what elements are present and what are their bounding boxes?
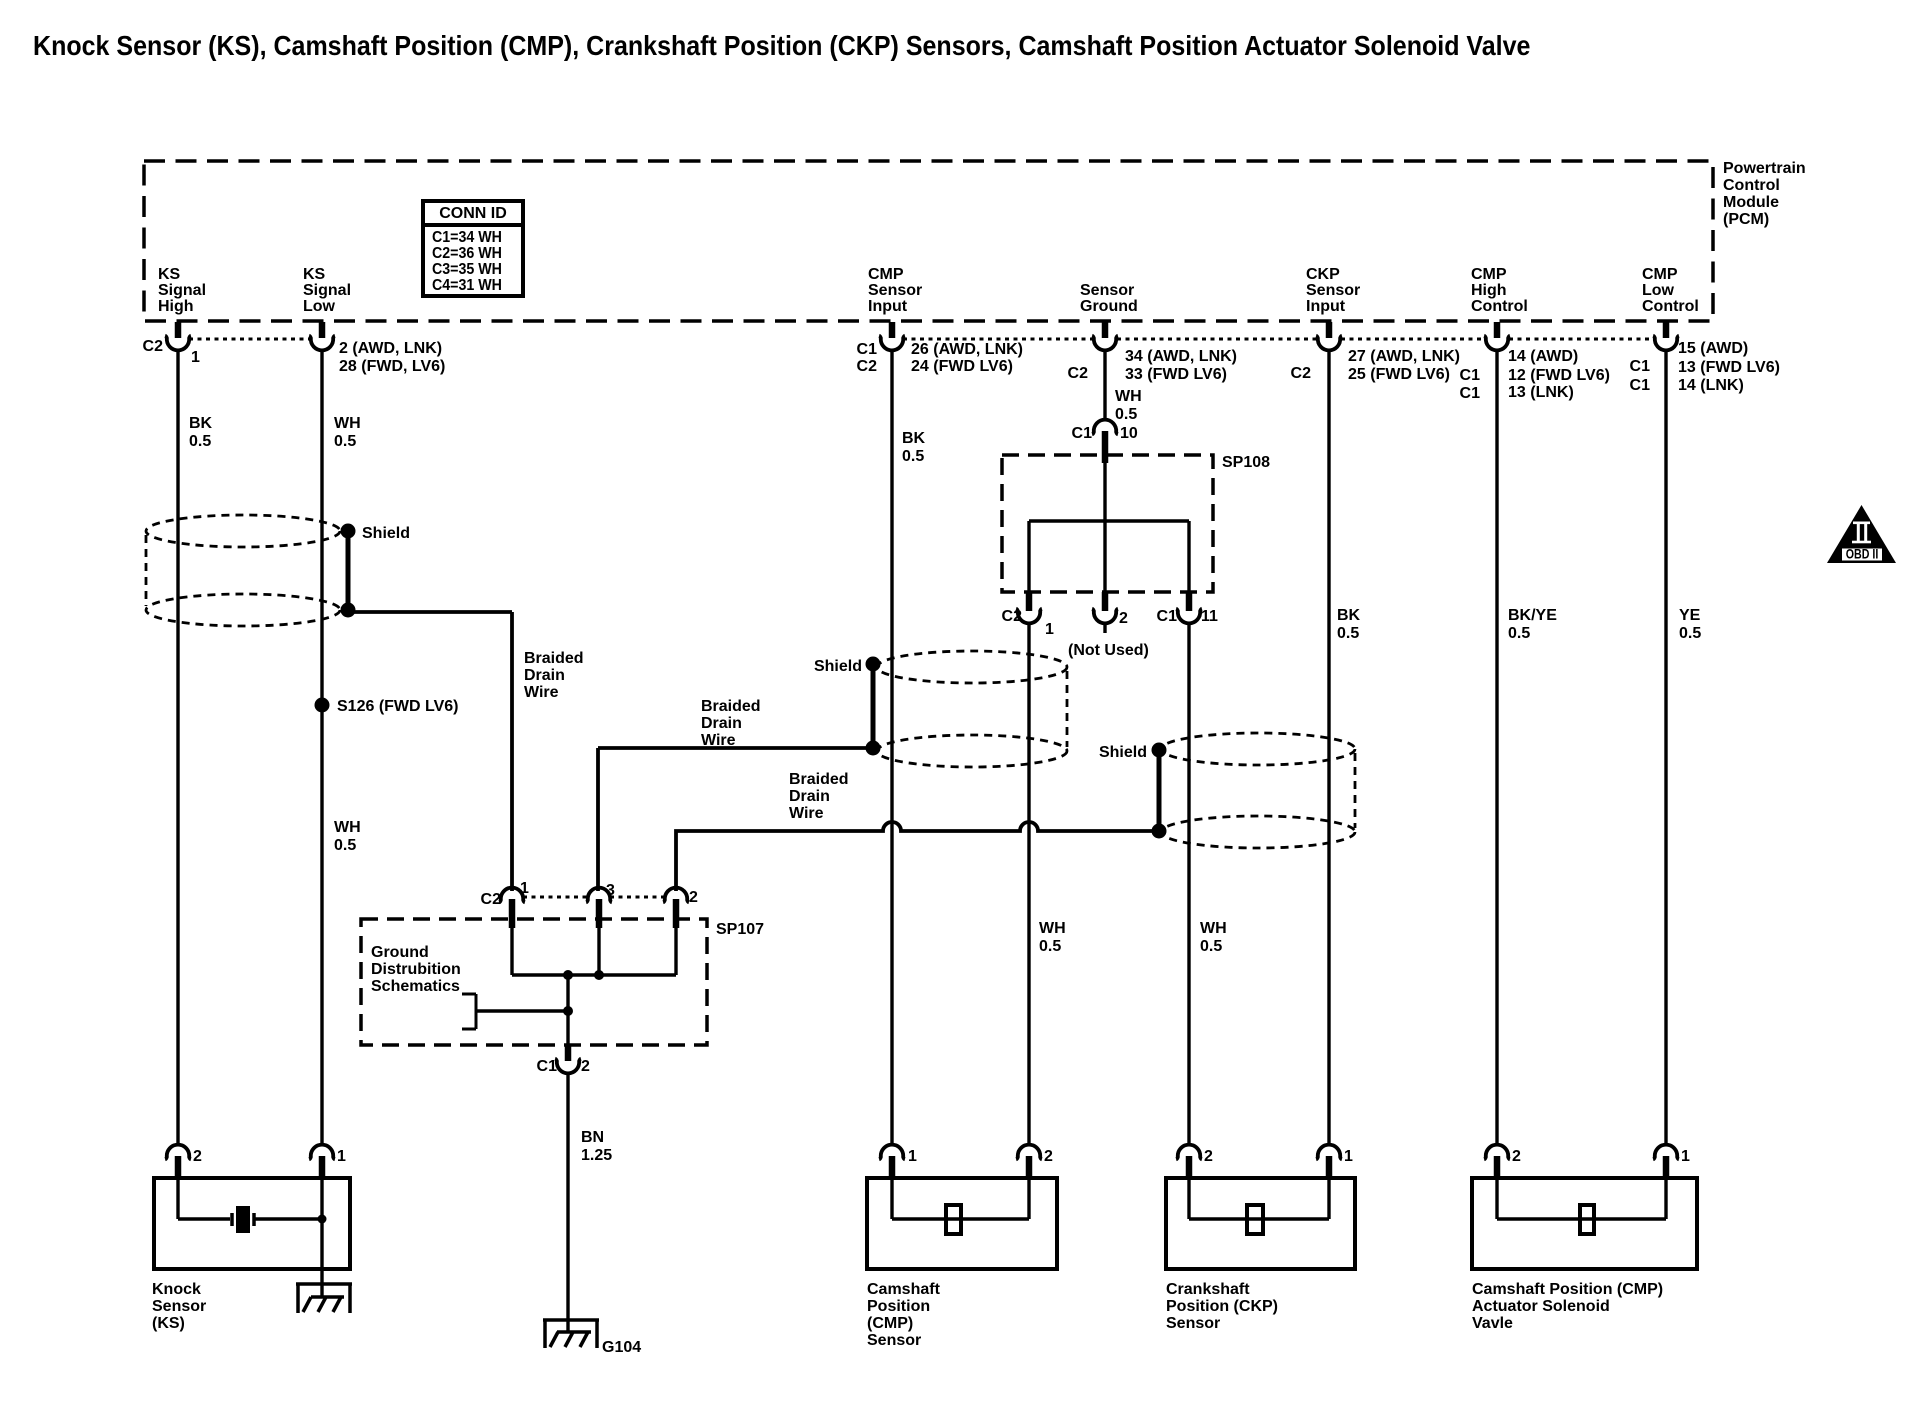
svg-text:Position: Position bbox=[867, 1298, 930, 1315]
svg-text:1: 1 bbox=[337, 1148, 346, 1165]
KS shield terminal dots and drain stub bbox=[341, 524, 356, 618]
svg-text:0.5: 0.5 bbox=[189, 433, 211, 450]
Camshaft Position Sensor box bbox=[867, 1178, 1057, 1269]
svg-text:CMP: CMP bbox=[1642, 266, 1678, 283]
svg-text:1: 1 bbox=[191, 349, 200, 366]
CMP Sensor internal element bbox=[892, 1180, 1029, 1234]
PCM connector C2 pin 27/25 (CKP Sensor Input) bbox=[1291, 322, 1460, 383]
CKP cable shield (dashed cylinder) bbox=[1161, 733, 1355, 848]
svg-text:2: 2 bbox=[193, 1148, 202, 1165]
svg-text:Wire: Wire bbox=[701, 732, 736, 749]
svg-text:C4=31 WH: C4=31 WH bbox=[432, 276, 502, 294]
svg-text:C1: C1 bbox=[1630, 358, 1651, 375]
CONN ID table bbox=[421, 201, 525, 296]
wire CMP High Control BK/YE 0.5 bbox=[1495, 351, 1498, 1146]
PCM connector in-line dotted rail (left pair) bbox=[189, 338, 311, 341]
svg-text:0.5: 0.5 bbox=[1200, 938, 1222, 955]
svg-text:C2: C2 bbox=[857, 358, 878, 375]
svg-text:2: 2 bbox=[1119, 610, 1128, 627]
svg-text:33 (FWD LV6): 33 (FWD LV6) bbox=[1125, 366, 1227, 383]
SP108 dashed box bbox=[1002, 455, 1213, 592]
svg-text:WH: WH bbox=[334, 819, 361, 836]
SP108 internal wires bbox=[1029, 460, 1189, 594]
CKP Sensor pin 1 connector bbox=[1316, 1145, 1353, 1180]
svg-text:Shield: Shield bbox=[814, 658, 862, 675]
svg-text:Braided: Braided bbox=[701, 698, 761, 715]
svg-text:2: 2 bbox=[1044, 1148, 1053, 1165]
CMP Actuator pin 2 connector bbox=[1484, 1145, 1521, 1180]
svg-text:0.5: 0.5 bbox=[334, 837, 356, 854]
CMP shield terminal dots and drain stub bbox=[866, 657, 881, 756]
svg-text:CMP: CMP bbox=[868, 266, 904, 283]
svg-text:26 (AWD, LNK): 26 (AWD, LNK) bbox=[911, 341, 1023, 358]
svg-text:Knock Sensor (KS), Camshaft Po: Knock Sensor (KS), Camshaft Position (CM… bbox=[33, 30, 1530, 61]
svg-text:C1: C1 bbox=[1460, 367, 1481, 384]
svg-text:1: 1 bbox=[908, 1148, 917, 1165]
svg-text:(KS): (KS) bbox=[152, 1315, 185, 1332]
wire CMP Low Control YE 0.5 bbox=[1664, 351, 1667, 1146]
svg-text:1: 1 bbox=[520, 880, 529, 897]
svg-text:2: 2 bbox=[581, 1058, 590, 1075]
svg-text:C1: C1 bbox=[1157, 608, 1178, 625]
Knock Sensor pin 2 connector bbox=[165, 1145, 202, 1180]
braided drain wire (CKP shield to SP107 pin 2, hops over CMP wires) bbox=[676, 822, 1159, 891]
svg-text:Shield: Shield bbox=[362, 525, 410, 542]
svg-text:KS: KS bbox=[303, 266, 326, 283]
svg-text:CKP: CKP bbox=[1306, 266, 1340, 283]
svg-text:C1: C1 bbox=[1460, 385, 1481, 402]
SP107 internal bus and legs bbox=[512, 918, 676, 1047]
svg-text:Control: Control bbox=[1471, 298, 1528, 315]
svg-text:Signal: Signal bbox=[303, 282, 351, 299]
svg-text:Wire: Wire bbox=[789, 805, 824, 822]
svg-text:2: 2 bbox=[1204, 1148, 1213, 1165]
svg-text:Powertrain: Powertrain bbox=[1723, 160, 1806, 177]
SP107 output connector C1 pin 2 bbox=[537, 1045, 590, 1075]
svg-text:28 (FWD, LV6): 28 (FWD, LV6) bbox=[339, 358, 445, 375]
svg-text:10: 10 bbox=[1120, 425, 1138, 442]
wire CKP WH 0.5 (SP108-11 to CKP sensor) bbox=[1187, 622, 1190, 1146]
svg-text:C1: C1 bbox=[1630, 377, 1651, 394]
svg-text:13 (LNK): 13 (LNK) bbox=[1508, 384, 1574, 401]
svg-text:Drain: Drain bbox=[524, 667, 565, 684]
SP107 dashed box bbox=[361, 919, 707, 1045]
svg-text:Camshaft: Camshaft bbox=[867, 1281, 941, 1298]
svg-text:Schematics: Schematics bbox=[371, 978, 460, 995]
svg-text:C1: C1 bbox=[537, 1058, 558, 1075]
svg-text:2 (AWD, LNK): 2 (AWD, LNK) bbox=[339, 340, 442, 357]
ground G104 symbol bbox=[543, 1319, 599, 1348]
svg-text:Low: Low bbox=[1642, 282, 1675, 299]
svg-text:C2: C2 bbox=[1068, 365, 1089, 382]
svg-text:Control: Control bbox=[1723, 177, 1780, 194]
svg-text:0.5: 0.5 bbox=[1508, 625, 1530, 642]
SP108 connector pin 2 (Not Used) bbox=[1092, 592, 1128, 633]
svg-text:Drain: Drain bbox=[701, 715, 742, 732]
svg-text:0.5: 0.5 bbox=[1115, 406, 1137, 423]
svg-text:Drain: Drain bbox=[789, 788, 830, 805]
wire BN 1.25 (SP107 to G104) bbox=[566, 1072, 569, 1332]
svg-text:(PCM): (PCM) bbox=[1723, 211, 1769, 228]
OBD II symbol bbox=[1827, 505, 1896, 563]
svg-text:Module: Module bbox=[1723, 194, 1779, 211]
CKP Sensor pin 2 connector bbox=[1176, 1145, 1213, 1180]
svg-text:25 (FWD LV6): 25 (FWD LV6) bbox=[1348, 366, 1450, 383]
SP108 connector C2 pin 1 bbox=[1002, 592, 1054, 638]
CMP Sensor pin 1 connector bbox=[879, 1145, 917, 1180]
CMP Actuator pin 1 connector bbox=[1653, 1145, 1690, 1180]
wire KS Signal High BK 0.5 bbox=[176, 351, 179, 1146]
Knock Sensor internal piezo element bbox=[178, 1180, 327, 1297]
svg-text:SP107: SP107 bbox=[716, 921, 764, 938]
svg-text:1: 1 bbox=[1045, 621, 1054, 638]
svg-text:Ground: Ground bbox=[1080, 298, 1138, 315]
svg-text:OBD II: OBD II bbox=[1846, 546, 1879, 562]
CKP shield terminal dots and drain stub bbox=[1152, 743, 1167, 839]
ground distribution reference bracket bbox=[462, 994, 573, 1029]
svg-text:C1: C1 bbox=[1072, 425, 1093, 442]
PCM connector C2 pin 1 (KS Signal High) bbox=[143, 322, 200, 366]
svg-text:C1: C1 bbox=[857, 341, 878, 358]
PCM connector in-line dotted rail (right group) bbox=[903, 338, 1093, 341]
svg-text:G104: G104 bbox=[602, 1339, 641, 1356]
SP108 connector C1 pin 11 bbox=[1157, 592, 1218, 625]
svg-text:Braided: Braided bbox=[789, 771, 849, 788]
wire CKP Sensor Input BK 0.5 bbox=[1327, 351, 1330, 1146]
svg-text:SP108: SP108 bbox=[1222, 454, 1270, 471]
svg-text:Actuator Solenoid: Actuator Solenoid bbox=[1472, 1298, 1610, 1315]
wire CMP WH 0.5 (SP108-1 to CMP sensor) bbox=[1027, 622, 1030, 1146]
wire Sensor Ground WH 0.5 (PCM to SP108) bbox=[1103, 351, 1106, 421]
svg-text:Vavle: Vavle bbox=[1472, 1315, 1513, 1332]
svg-text:Position (CKP): Position (CKP) bbox=[1166, 1298, 1278, 1315]
svg-text:0.5: 0.5 bbox=[334, 433, 356, 450]
svg-text:0.5: 0.5 bbox=[1337, 625, 1359, 642]
svg-text:BK: BK bbox=[189, 415, 213, 432]
CMP cable shield (dashed cylinder) bbox=[877, 651, 1067, 767]
svg-text:CMP: CMP bbox=[1471, 266, 1507, 283]
svg-text:27 (AWD, LNK): 27 (AWD, LNK) bbox=[1348, 348, 1460, 365]
svg-text:Input: Input bbox=[868, 298, 908, 315]
CMP Sensor pin 2 connector bbox=[1016, 1145, 1053, 1180]
Knock Sensor pin 1 connector bbox=[309, 1145, 346, 1180]
svg-text:34 (AWD, LNK): 34 (AWD, LNK) bbox=[1125, 348, 1237, 365]
CMP Actuator internal solenoid element bbox=[1497, 1180, 1666, 1234]
svg-text:KS: KS bbox=[158, 266, 181, 283]
svg-text:Camshaft Position (CMP): Camshaft Position (CMP) bbox=[1472, 1281, 1663, 1298]
svg-text:1.25: 1.25 bbox=[581, 1147, 612, 1164]
SP107 connector pin 2 bbox=[663, 888, 698, 928]
PCM connector C2 pin 34/33 (Sensor Ground) bbox=[1068, 322, 1237, 383]
svg-text:High: High bbox=[158, 298, 194, 315]
svg-text:0.5: 0.5 bbox=[902, 448, 924, 465]
svg-text:2: 2 bbox=[689, 889, 698, 906]
svg-text:BK: BK bbox=[1337, 607, 1361, 624]
svg-text:BN: BN bbox=[581, 1129, 604, 1146]
svg-text:WH: WH bbox=[1039, 920, 1066, 937]
Knock Sensor case ground symbol bbox=[296, 1284, 352, 1313]
svg-text:BK/YE: BK/YE bbox=[1508, 607, 1557, 624]
svg-text:S126 (FWD LV6): S126 (FWD LV6) bbox=[337, 698, 459, 715]
svg-text:C2: C2 bbox=[481, 891, 502, 908]
svg-text:WH: WH bbox=[1200, 920, 1227, 937]
PCM connector C1/C1 pin 14/12/13 (CMP High Control) bbox=[1460, 322, 1610, 402]
svg-text:11: 11 bbox=[1201, 608, 1218, 625]
svg-text:1: 1 bbox=[1681, 1148, 1690, 1165]
svg-text:14 (AWD): 14 (AWD) bbox=[1508, 348, 1578, 365]
svg-text:Braided: Braided bbox=[524, 650, 584, 667]
PCM connector C1/C1 pin 15/13/14 (CMP Low Control) bbox=[1630, 322, 1780, 394]
svg-text:15 (AWD): 15 (AWD) bbox=[1678, 340, 1748, 357]
SP107 connector pin 3 bbox=[586, 882, 615, 928]
svg-text:(Not Used): (Not Used) bbox=[1068, 642, 1149, 659]
SP107 bus junction dots bbox=[563, 970, 604, 980]
svg-text:Sensor: Sensor bbox=[868, 282, 922, 299]
svg-text:Input: Input bbox=[1306, 298, 1346, 315]
svg-text:1: 1 bbox=[1344, 1148, 1353, 1165]
CKP Sensor internal element bbox=[1189, 1180, 1329, 1234]
svg-text:2: 2 bbox=[1512, 1148, 1521, 1165]
SP107 connector dotted rail bbox=[523, 896, 588, 899]
svg-text:Low: Low bbox=[303, 298, 336, 315]
PCM module dashed box bbox=[144, 161, 1713, 321]
svg-text:Sensor: Sensor bbox=[1306, 282, 1360, 299]
svg-text:Sensor: Sensor bbox=[1080, 282, 1134, 299]
svg-text:YE: YE bbox=[1679, 607, 1701, 624]
svg-text:WH: WH bbox=[334, 415, 361, 432]
CMP Actuator Solenoid Valve box bbox=[1472, 1178, 1697, 1269]
wire CMP Sensor Input BK 0.5 bbox=[890, 351, 893, 1146]
svg-text:CONN ID: CONN ID bbox=[439, 205, 507, 222]
Crankshaft Position Sensor box bbox=[1166, 1178, 1355, 1269]
braided drain wire (CMP shield to SP107 pin 3) bbox=[598, 748, 873, 891]
SP107 connector C2 pin 1 bbox=[481, 880, 529, 928]
svg-text:C2: C2 bbox=[1291, 365, 1312, 382]
PCM connector C1/C2 pin 26/24 (CMP Sensor Input) bbox=[857, 322, 1023, 375]
svg-text:Distrubition: Distrubition bbox=[371, 961, 461, 978]
svg-text:0.5: 0.5 bbox=[1679, 625, 1701, 642]
svg-text:C2: C2 bbox=[1002, 608, 1023, 625]
svg-text:Knock: Knock bbox=[152, 1281, 201, 1298]
svg-text:14 (LNK): 14 (LNK) bbox=[1678, 377, 1744, 394]
svg-text:Signal: Signal bbox=[158, 282, 206, 299]
svg-text:C2: C2 bbox=[143, 338, 164, 355]
svg-text:(CMP): (CMP) bbox=[867, 1315, 913, 1332]
connector C1 pin 10 (into SP108) bbox=[1072, 420, 1138, 463]
svg-text:Shield: Shield bbox=[1099, 744, 1147, 761]
svg-text:Control: Control bbox=[1642, 298, 1699, 315]
svg-text:Ground: Ground bbox=[371, 944, 429, 961]
svg-text:Sensor: Sensor bbox=[867, 1332, 921, 1349]
braided drain wire (KS shield to SP107 pin 1) bbox=[348, 612, 512, 891]
svg-text:13 (FWD LV6): 13 (FWD LV6) bbox=[1678, 359, 1780, 376]
svg-text:Crankshaft: Crankshaft bbox=[1166, 1281, 1250, 1298]
PCM connector pin 2/28 (KS Signal Low) bbox=[309, 322, 445, 375]
Knock Sensor (KS) box bbox=[154, 1178, 350, 1269]
svg-text:24 (FWD LV6): 24 (FWD LV6) bbox=[911, 358, 1013, 375]
svg-text:High: High bbox=[1471, 282, 1507, 299]
wire KS Signal Low WH 0.5 bbox=[320, 351, 323, 1146]
splice S126 bbox=[315, 698, 330, 713]
svg-text:BK: BK bbox=[902, 430, 926, 447]
svg-text:Sensor: Sensor bbox=[152, 1298, 206, 1315]
svg-text:Sensor: Sensor bbox=[1166, 1315, 1220, 1332]
svg-text:WH: WH bbox=[1115, 388, 1142, 405]
svg-text:12 (FWD LV6): 12 (FWD LV6) bbox=[1508, 367, 1610, 384]
svg-text:Wire: Wire bbox=[524, 684, 559, 701]
KS cable shield (dashed cylinder) bbox=[146, 515, 340, 626]
svg-text:0.5: 0.5 bbox=[1039, 938, 1061, 955]
